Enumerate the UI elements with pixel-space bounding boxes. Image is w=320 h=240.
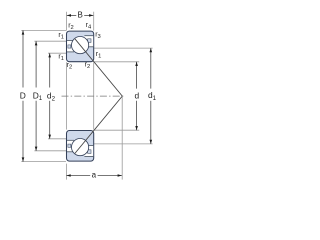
svg-text:D: D: [20, 91, 26, 101]
a dimension line: [67, 175, 91, 177]
svg-text:r2: r2: [68, 23, 74, 32]
D top extension: [21, 29, 66, 31]
d1 top extension: [94, 47, 153, 49]
D1 bottom extension: [34, 150, 66, 152]
d2 top extension: [48, 52, 66, 54]
d1 bottom extension: [94, 143, 153, 145]
svg-text:r2: r2: [85, 62, 91, 71]
svg-text:r4: r4: [86, 22, 92, 31]
upper bearing section: [67, 31, 94, 62]
B dimension line: [67, 14, 77, 16]
D bottom extension: [21, 161, 66, 163]
D1 top extension: [34, 40, 66, 42]
axis centerline: [62, 95, 125, 97]
face line left between sections: [65, 62, 67, 129]
svg-text:r1: r1: [58, 53, 64, 62]
face line right between sections: [93, 62, 95, 129]
svg-text:d2: d2: [47, 91, 56, 103]
d2 bottom extension: [48, 138, 66, 140]
svg-text:d1: d1: [148, 90, 157, 102]
a extension line left below section: [65, 164, 67, 180]
d2 dimension line: [49, 53, 51, 87]
a extension line right from apex: [121, 97, 123, 180]
B extension line right (x=93.7 above section): [93, 12, 95, 31]
svg-text:r3: r3: [95, 31, 101, 40]
svg-text:a: a: [92, 171, 97, 180]
svg-text:r1: r1: [58, 32, 64, 41]
d1 dimension line: [150, 48, 152, 89]
lower bearing section (mirrored): [67, 131, 94, 162]
D dimension line: [22, 30, 24, 87]
B extension line left (x=66.4 above section): [65, 12, 67, 31]
contact angle line lower: [75, 96, 122, 153]
svg-text:B: B: [78, 11, 83, 20]
svg-text:r1: r1: [96, 51, 102, 60]
svg-text:r2: r2: [67, 62, 73, 71]
svg-text:d: d: [134, 90, 139, 100]
D1 dimension line: [35, 41, 37, 87]
contact angle line upper: [75, 39, 122, 96]
d bottom extension: [94, 129, 139, 131]
d top extension: [94, 61, 139, 63]
svg-text:D1: D1: [33, 90, 43, 102]
d dimension line: [136, 62, 138, 89]
